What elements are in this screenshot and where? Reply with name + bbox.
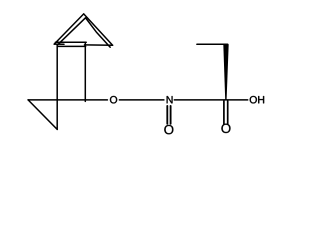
cyclobutane top edge bbox=[57, 45, 85, 47]
ethyl top bond bbox=[197, 43, 228, 45]
cyclobutane right vertical bbox=[84, 42, 86, 101]
cyclobutane left vertical bbox=[56, 44, 58, 129]
bicyclobutane inner left slant bbox=[58, 18, 86, 45]
bicyclobutane inner right slant bbox=[86, 18, 111, 47]
bicyclobutane central bond bbox=[55, 41, 86, 43]
bicyclobutane outer left slant bbox=[54, 14, 83, 44]
N=O double bond bbox=[166, 106, 168, 124]
cyclopropane diagonal bbox=[28, 100, 57, 130]
main chain left: ring to O bbox=[28, 99, 107, 101]
atom label O (ester) bbox=[110, 96, 117, 103]
atom label O (below C) bbox=[221, 124, 230, 133]
C=O double bond bbox=[223, 101, 225, 124]
atom label O (below N) bbox=[164, 125, 173, 134]
atom label O of OH bbox=[250, 96, 257, 103]
atom label N bbox=[167, 96, 173, 103]
roof right base bbox=[85, 44, 113, 46]
base stub left bbox=[54, 43, 64, 45]
atom label H of OH bbox=[258, 96, 264, 103]
bond N to acid carbon and OH bbox=[174, 99, 247, 101]
wedge bond bbox=[223, 44, 228, 99]
bond O to N bbox=[119, 99, 163, 101]
bicyclobutane outer right slant bbox=[84, 14, 113, 45]
